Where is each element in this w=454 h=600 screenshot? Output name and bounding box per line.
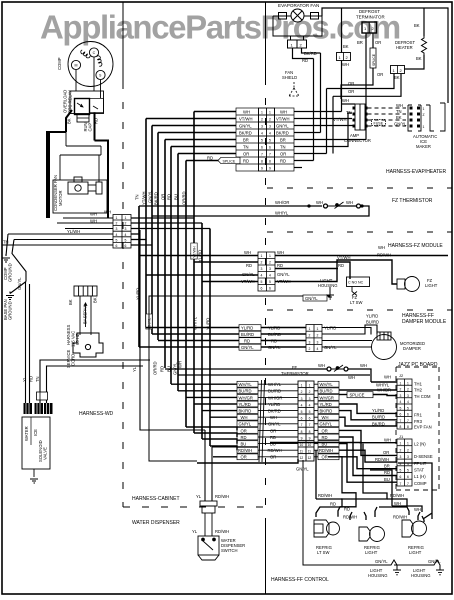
svg-text:WH/GR: WH/GR <box>320 395 334 400</box>
svg-text:RD/WH: RD/WH <box>215 529 229 534</box>
svg-text:1: 1 <box>261 111 263 115</box>
svg-text:2: 2 <box>407 448 409 452</box>
svg-text:HOUSING: HOUSING <box>318 283 338 288</box>
svg-text:YL: YL <box>192 529 198 534</box>
svg-text:3: 3 <box>269 125 271 129</box>
svg-text:RD: RD <box>302 58 308 63</box>
svg-text:3: 3 <box>125 227 127 231</box>
svg-text:YL/RD: YL/RD <box>324 326 336 331</box>
svg-text:BU/RD: BU/RD <box>320 389 333 394</box>
svg-text:VALVE: VALVE <box>43 447 48 460</box>
svg-text:BK/RD: BK/RD <box>268 409 281 414</box>
svg-text:6: 6 <box>301 417 303 421</box>
svg-text:RD: RD <box>243 159 249 164</box>
svg-text:WH/OR: WH/OR <box>275 200 289 205</box>
svg-text:9: 9 <box>309 436 311 440</box>
svg-text:TN: TN <box>35 376 40 382</box>
svg-text:RD: RD <box>246 263 252 268</box>
svg-text:RD/WH: RD/WH <box>343 515 357 520</box>
svg-text:TH1: TH1 <box>414 381 423 386</box>
svg-text:12: 12 <box>308 456 312 460</box>
svg-text:7: 7 <box>301 423 303 427</box>
svg-text:WH: WH <box>280 110 287 115</box>
svg-text:5: 5 <box>301 410 303 414</box>
svg-text:5: 5 <box>116 238 118 242</box>
svg-text:GN/YL: GN/YL <box>268 422 281 427</box>
svg-text:BU: BU <box>241 442 247 447</box>
svg-text:VT/WH: VT/WH <box>333 117 347 122</box>
svg-text:4: 4 <box>317 347 319 351</box>
svg-text:TN: TN <box>243 145 249 150</box>
svg-text:2: 2 <box>317 334 319 338</box>
svg-text:5: 5 <box>261 280 263 284</box>
svg-text:1: 1 <box>400 442 402 446</box>
svg-text:PTC RELAY: PTC RELAY <box>68 90 73 113</box>
svg-text:BK: BK <box>414 23 420 28</box>
svg-text:TH COM: TH COM <box>414 394 431 399</box>
svg-text:WH: WH <box>384 438 391 443</box>
svg-text:9: 9 <box>269 167 271 171</box>
svg-text:BU/RD: BU/RD <box>268 332 281 337</box>
svg-text:HARNESS-FF CONTROL: HARNESS-FF CONTROL <box>271 577 329 583</box>
svg-text:OR/RD: OR/RD <box>182 192 187 206</box>
svg-text:OR: OR <box>348 81 354 86</box>
svg-text:RD: RD <box>207 156 213 161</box>
svg-text:6: 6 <box>269 146 271 150</box>
svg-text:FZ THERMISTOR: FZ THERMISTOR <box>392 198 433 204</box>
svg-text:CAP: CAP <box>88 123 93 132</box>
svg-text:TH2: TH2 <box>414 388 423 393</box>
svg-text:3: 3 <box>407 394 409 398</box>
svg-text:RD/WH: RD/WH <box>375 457 389 462</box>
svg-text:WH/BR: WH/BR <box>377 388 391 393</box>
svg-text:3: 3 <box>317 340 319 344</box>
svg-text:12: 12 <box>300 456 304 460</box>
svg-text:HARNESS-EVAP/HEATER: HARNESS-EVAP/HEATER <box>386 169 446 175</box>
svg-text:EVAPORATOR FAN: EVAPORATOR FAN <box>278 3 319 8</box>
svg-text:GROUND: GROUND <box>8 263 13 282</box>
svg-text:5: 5 <box>407 406 409 410</box>
svg-text:TN: TN <box>135 194 140 200</box>
svg-text:RD: RD <box>244 339 250 344</box>
svg-text:3: 3 <box>309 397 311 401</box>
svg-text:6: 6 <box>400 475 402 479</box>
svg-text:10: 10 <box>308 443 312 447</box>
svg-text:7: 7 <box>400 419 402 423</box>
svg-text:THERMISTOR: THERMISTOR <box>281 371 309 376</box>
svg-text:6: 6 <box>309 417 311 421</box>
svg-text:BK: BK <box>343 44 349 49</box>
svg-text:BU/RD: BU/RD <box>239 389 252 394</box>
svg-text:AppliancePartsPros.com: AppliancePartsPros.com <box>40 9 400 46</box>
svg-text:OR: OR <box>375 40 381 45</box>
svg-text:BR: BR <box>243 138 249 143</box>
svg-text:5: 5 <box>269 139 271 143</box>
svg-text:RD: RD <box>160 366 165 372</box>
svg-text:YL/RD: YL/RD <box>239 402 251 407</box>
svg-text:SHIELD: SHIELD <box>282 75 297 80</box>
svg-text:7: 7 <box>400 482 402 486</box>
svg-text:HARNESS-CABINET: HARNESS-CABINET <box>132 496 180 502</box>
svg-text:4: 4 <box>116 233 118 237</box>
svg-text:BK: BK <box>416 56 422 61</box>
svg-text:WH: WH <box>241 415 248 420</box>
svg-text:GROUND: GROUND <box>8 301 13 320</box>
svg-text:BU: BU <box>384 477 390 482</box>
svg-text:9: 9 <box>301 436 303 440</box>
svg-text:RD/WH: RD/WH <box>319 448 333 453</box>
svg-text:BU/RD: BU/RD <box>372 415 385 420</box>
svg-text:BR: BR <box>384 464 390 469</box>
svg-text:2: 2 <box>400 448 402 452</box>
svg-text:RD/WH: RD/WH <box>215 494 229 499</box>
svg-text:3: 3 <box>116 227 118 231</box>
svg-text:WH: WH <box>277 250 284 255</box>
svg-text:RD/WH: RD/WH <box>318 493 332 498</box>
svg-text:8: 8 <box>407 425 409 429</box>
svg-text:RD: RD <box>29 376 34 382</box>
svg-text:WATER: WATER <box>24 426 29 441</box>
svg-text:FUSE: FUSE <box>374 122 384 126</box>
svg-text:OR: OR <box>383 450 389 455</box>
svg-text:WH: WH <box>322 415 329 420</box>
svg-text:2: 2 <box>309 334 311 338</box>
svg-text:RD/WH: RD/WH <box>238 448 252 453</box>
svg-text:RD: RD <box>271 339 277 344</box>
svg-text:WH: WH <box>394 501 401 506</box>
svg-text:RD: RD <box>280 159 286 164</box>
svg-text:BK: BK <box>67 118 72 124</box>
svg-text:YL: YL <box>196 494 202 499</box>
svg-text:1: 1 <box>269 111 271 115</box>
svg-text:SWITCH: SWITCH <box>221 548 238 553</box>
svg-text:OR: OR <box>243 152 249 157</box>
svg-text:7: 7 <box>269 153 271 157</box>
svg-text:3: 3 <box>269 267 271 271</box>
svg-text:BK/RD: BK/RD <box>320 409 333 414</box>
svg-text:L2 (N): L2 (N) <box>414 442 426 447</box>
svg-text:LIGHT: LIGHT <box>409 550 422 555</box>
svg-text:BK/RD: BK/RD <box>304 51 317 56</box>
svg-text:YL/RD: YL/RD <box>366 314 378 319</box>
svg-text:LT SW: LT SW <box>350 300 362 305</box>
svg-text:C NO NC: C NO NC <box>348 281 364 285</box>
svg-text:1: 1 <box>125 216 127 220</box>
svg-text:BK/RD: BK/RD <box>239 409 252 414</box>
svg-text:SPLICE: SPLICE <box>372 53 376 66</box>
svg-text:LIGHT: LIGHT <box>425 283 438 288</box>
svg-text:HEATER: HEATER <box>396 45 413 50</box>
svg-text:3: 3 <box>400 394 402 398</box>
svg-text:YL/RD: YL/RD <box>268 402 280 407</box>
svg-text:LIGHT: LIGHT <box>365 550 378 555</box>
svg-text:RD: RD <box>167 194 172 200</box>
svg-text:1: 1 <box>309 327 311 331</box>
svg-text:6: 6 <box>261 287 263 291</box>
svg-text:GN/YL: GN/YL <box>239 422 252 427</box>
svg-text:2: 2 <box>269 118 271 122</box>
svg-text:GN/YL: GN/YL <box>324 345 337 350</box>
svg-text:4: 4 <box>269 132 271 136</box>
svg-text:2: 2 <box>261 261 263 265</box>
svg-text:GN/YL: GN/YL <box>241 345 254 350</box>
svg-text:WH: WH <box>342 98 349 103</box>
svg-text:YT/WH: YT/WH <box>193 246 197 258</box>
svg-text:M: M <box>75 64 78 68</box>
svg-text:7: 7 <box>407 482 409 486</box>
svg-text:WH: WH <box>396 103 403 108</box>
svg-text:4: 4 <box>261 132 263 136</box>
svg-text:BR: BR <box>357 40 363 45</box>
svg-text:GN/YL: GN/YL <box>17 277 22 290</box>
svg-text:8: 8 <box>261 160 263 164</box>
svg-text:WH/YL: WH/YL <box>320 382 334 387</box>
svg-text:BU/RD: BU/RD <box>241 332 254 337</box>
svg-text:4: 4 <box>400 400 402 404</box>
svg-text:Z: Z <box>423 113 425 117</box>
svg-text:2: 2 <box>407 388 409 392</box>
svg-text:3: 3 <box>261 125 263 129</box>
svg-text:8: 8 <box>400 425 402 429</box>
svg-text:RD: RD <box>330 502 336 507</box>
svg-text:1: 1 <box>309 384 311 388</box>
svg-text:HOUSING: HOUSING <box>368 573 388 578</box>
svg-text:WH/YL: WH/YL <box>268 382 282 387</box>
svg-text:10: 10 <box>300 443 304 447</box>
svg-text:YL/RD: YL/RD <box>320 402 332 407</box>
svg-text:OR: OR <box>270 428 276 433</box>
svg-text:C: C <box>93 51 96 55</box>
svg-text:DAMPER MODULE: DAMPER MODULE <box>402 319 447 325</box>
svg-text:OR: OR <box>270 455 276 460</box>
svg-text:WH: WH <box>414 507 421 512</box>
svg-text:TN: TN <box>396 109 402 114</box>
svg-text:OR: OR <box>161 194 166 200</box>
svg-text:FR3: FR3 <box>414 419 423 424</box>
svg-text:4: 4 <box>125 233 127 237</box>
svg-text:BK: BK <box>68 299 73 305</box>
svg-text:1: 1 <box>423 107 425 111</box>
svg-text:6: 6 <box>269 287 271 291</box>
svg-text:2: 2 <box>125 222 127 226</box>
svg-text:5: 5 <box>400 469 402 473</box>
svg-text:WH: WH <box>384 375 391 380</box>
svg-text:5: 5 <box>400 406 402 410</box>
svg-text:BK/RD: BK/RD <box>372 421 385 426</box>
svg-text:GN/YL: GN/YL <box>394 122 407 127</box>
svg-text:OR: OR <box>322 428 328 433</box>
svg-text:8: 8 <box>309 430 311 434</box>
svg-text:WH/GR: WH/GR <box>239 395 253 400</box>
svg-text:GN/YL: GN/YL <box>276 124 289 129</box>
svg-text:BK: BK <box>396 115 402 120</box>
svg-text:5: 5 <box>261 139 263 143</box>
svg-text:FF: FF <box>292 365 298 370</box>
svg-text:RD/WH: RD/WH <box>390 493 404 498</box>
svg-text:GN/YL: GN/YL <box>239 124 252 129</box>
svg-text:2: 2 <box>309 390 311 394</box>
svg-text:RD: RD <box>344 507 350 512</box>
svg-text:3: 3 <box>301 397 303 401</box>
svg-text:HARNESS-WD: HARNESS-WD <box>79 411 114 417</box>
svg-text:DAMPER: DAMPER <box>403 346 421 351</box>
svg-text:YL/RD: YL/RD <box>372 408 384 413</box>
svg-text:ICE: ICE <box>33 429 38 436</box>
svg-text:5: 5 <box>407 469 409 473</box>
svg-text:WH: WH <box>360 363 367 368</box>
svg-text:3: 3 <box>309 340 311 344</box>
svg-text:YL: YL <box>132 366 137 372</box>
svg-text:BU: BU <box>174 194 179 200</box>
svg-text:MAKER: MAKER <box>416 144 431 149</box>
svg-text:4: 4 <box>407 400 409 404</box>
svg-text:7: 7 <box>261 153 263 157</box>
svg-text:WH/GR: WH/GR <box>268 395 282 400</box>
svg-text:COMP: COMP <box>57 57 62 70</box>
svg-text:1: 1 <box>317 327 319 331</box>
svg-text:RD: RD <box>384 470 390 475</box>
svg-text:3: 3 <box>400 455 402 459</box>
svg-text:WH: WH <box>378 245 385 250</box>
svg-text:YL/RD: YL/RD <box>268 326 280 331</box>
svg-text:COMP: COMP <box>414 481 427 486</box>
svg-text:YL/RD: YL/RD <box>241 326 253 331</box>
svg-text:WH: WH <box>104 210 111 215</box>
svg-text:BK/RD: BK/RD <box>154 192 159 205</box>
svg-text:2: 2 <box>400 388 402 392</box>
svg-text:BK: BK <box>394 75 400 80</box>
svg-text:OR: OR <box>241 428 247 433</box>
svg-text:SPLICE: SPLICE <box>223 160 236 164</box>
svg-text:5: 5 <box>309 410 311 414</box>
svg-text:RD: RD <box>322 435 328 440</box>
svg-text:RD: RD <box>270 435 276 440</box>
svg-text:HOUSING: HOUSING <box>411 573 431 578</box>
svg-text:8: 8 <box>269 160 271 164</box>
svg-text:1: 1 <box>407 442 409 446</box>
svg-text:1: 1 <box>269 254 271 258</box>
svg-text:WH: WH <box>316 200 323 205</box>
svg-text:YL: YL <box>22 376 27 382</box>
svg-text:RD/WH: RD/WH <box>268 448 282 453</box>
svg-text:11: 11 <box>308 450 312 454</box>
svg-text:WH: WH <box>178 361 183 368</box>
svg-text:GN/YL: GN/YL <box>305 296 318 301</box>
svg-text:11: 11 <box>300 450 304 454</box>
svg-text:2: 2 <box>269 261 271 265</box>
svg-text:WH: WH <box>244 250 251 255</box>
svg-text:BU/RD: BU/RD <box>366 320 379 325</box>
svg-text:BASEPAN: BASEPAN <box>83 305 88 324</box>
svg-text:9: 9 <box>261 167 263 171</box>
svg-text:1: 1 <box>407 381 409 385</box>
svg-text:BU/RD: BU/RD <box>268 389 281 394</box>
svg-text:VT/WH: VT/WH <box>276 117 290 122</box>
svg-text:7: 7 <box>407 419 409 423</box>
svg-text:LT SW: LT SW <box>317 550 329 555</box>
svg-text:RD/WH: RD/WH <box>377 253 391 258</box>
svg-text:1: 1 <box>423 125 425 129</box>
svg-text:GN/YL: GN/YL <box>277 272 290 277</box>
svg-text:4: 4 <box>269 274 271 278</box>
svg-text:6: 6 <box>125 244 127 248</box>
svg-text:WH: WH <box>342 62 349 67</box>
svg-text:GN/YL: GN/YL <box>268 345 281 350</box>
svg-text:RD: RD <box>277 263 283 268</box>
svg-text:FR1: FR1 <box>414 413 423 418</box>
svg-text:6: 6 <box>116 244 118 248</box>
svg-text:GN/YL: GN/YL <box>148 190 153 203</box>
svg-text:WH/YL: WH/YL <box>275 211 289 216</box>
svg-text:WH: WH <box>346 200 353 205</box>
svg-text:4: 4 <box>309 403 311 407</box>
svg-text:8: 8 <box>301 430 303 434</box>
svg-text:MOTOR: MOTOR <box>58 190 63 206</box>
svg-text:VT/WH: VT/WH <box>239 117 253 122</box>
svg-text:WH: WH <box>90 212 97 217</box>
svg-text:4: 4 <box>261 274 263 278</box>
svg-text:GN/YL: GN/YL <box>375 559 388 564</box>
svg-text:TERMINATOR: TERMINATOR <box>356 15 385 20</box>
svg-text:6: 6 <box>400 413 402 417</box>
svg-text:YL/WH: YL/WH <box>67 229 80 234</box>
svg-text:6: 6 <box>407 413 409 417</box>
svg-text:WH: WH <box>270 415 277 420</box>
svg-text:7: 7 <box>309 423 311 427</box>
svg-text:1: 1 <box>400 381 402 385</box>
svg-text:4: 4 <box>301 403 303 407</box>
svg-text:GN/YL: GN/YL <box>428 559 441 564</box>
svg-text:5: 5 <box>125 238 127 242</box>
svg-text:WH/YL: WH/YL <box>239 382 253 387</box>
svg-text:OR/RD: OR/RD <box>153 362 158 376</box>
svg-text:OR: OR <box>322 455 328 460</box>
svg-text:TN: TN <box>280 145 286 150</box>
svg-text:D-SENSE: D-SENSE <box>414 454 433 459</box>
svg-text:WATER DISPENSER: WATER DISPENSER <box>132 520 180 526</box>
svg-text:1: 1 <box>301 384 303 388</box>
svg-text:HARNESS-FZ MODULE: HARNESS-FZ MODULE <box>388 243 443 249</box>
svg-text:3: 3 <box>407 455 409 459</box>
svg-text:1: 1 <box>116 216 118 220</box>
svg-text:5: 5 <box>269 280 271 284</box>
svg-text:BK: BK <box>93 297 98 303</box>
svg-text:BK/RD: BK/RD <box>276 131 289 136</box>
svg-text:GN/YL: GN/YL <box>320 422 333 427</box>
svg-text:RD: RD <box>338 263 344 268</box>
svg-text:EVP FAN: EVP FAN <box>414 425 432 430</box>
svg-text:OR: OR <box>348 89 354 94</box>
svg-text:2: 2 <box>309 347 311 351</box>
svg-text:VT/WH: VT/WH <box>337 255 351 260</box>
svg-text:DEFROST: DEFROST <box>359 9 380 14</box>
svg-text:6: 6 <box>261 146 263 150</box>
svg-text:L1 (H): L1 (H) <box>414 474 426 479</box>
svg-text:3: 3 <box>261 267 263 271</box>
svg-text:BR: BR <box>280 138 286 143</box>
svg-text:1: 1 <box>261 254 263 258</box>
svg-text:RD/WH: RD/WH <box>393 515 407 520</box>
svg-text:6: 6 <box>407 475 409 479</box>
svg-text:OR: OR <box>241 455 247 460</box>
svg-text:WH: WH <box>348 375 355 380</box>
svg-text:2: 2 <box>116 222 118 226</box>
svg-text:YT/WH: YT/WH <box>142 192 147 206</box>
svg-text:OR: OR <box>280 152 286 157</box>
svg-text:2: 2 <box>261 118 263 122</box>
svg-text:SPLICE: SPLICE <box>350 393 365 398</box>
svg-text:WH: WH <box>318 363 325 368</box>
